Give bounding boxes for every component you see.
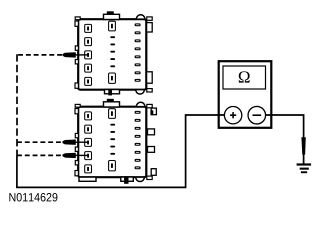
connector C2 left notch bumps at pin rows 3-4 (75, 133, 78, 165)
meter - probe terminal (248, 106, 266, 124)
wire: dashed from C1 pin 3 left and down (17, 54, 62, 56)
wire: dashed vertical run down left side (16, 54, 18, 155)
wire: dashed branch to C2 pin row 4 (17, 154, 62, 156)
connector C1 bottom clip tab (105, 90, 120, 94)
connector C1 left notch bumps at pin row 3 (75, 46, 78, 64)
ground symbol G (297, 163, 312, 173)
connector C2 right corner curls (151, 108, 156, 115)
label N0114629 (9, 193, 57, 202)
ohmmeter scale label (ohms) (239, 71, 250, 82)
connector C1 right latch tabs (147, 23, 153, 84)
wire: solid from C2 pin row4 down, right, up to meter + lead (17, 115, 233, 187)
connector C2 (lower module) (75, 99, 152, 182)
in-line terminal wedge on ground wire (301, 137, 305, 154)
wire: solid from meter - lead right and down to ground (257, 115, 304, 164)
ohmmeter U1 body (219, 61, 272, 128)
terminal pin into C2 row 3 (wedge) (63, 140, 88, 145)
ohmmeter display window (223, 66, 266, 89)
wire: dashed branch to C2 pin row 3 (17, 141, 62, 143)
connector C2 bottom clip tab (121, 177, 134, 181)
terminal pin into C2 row 4 (wedge) (63, 153, 88, 158)
connector C2 bottom-left foot (79, 177, 96, 181)
meter + probe terminal (224, 107, 241, 124)
connector C2 right latch tabs (148, 129, 155, 152)
terminal pin into C1 pin 3 (wedge) (63, 52, 88, 57)
connector C1 (upper module) (75, 11, 152, 94)
